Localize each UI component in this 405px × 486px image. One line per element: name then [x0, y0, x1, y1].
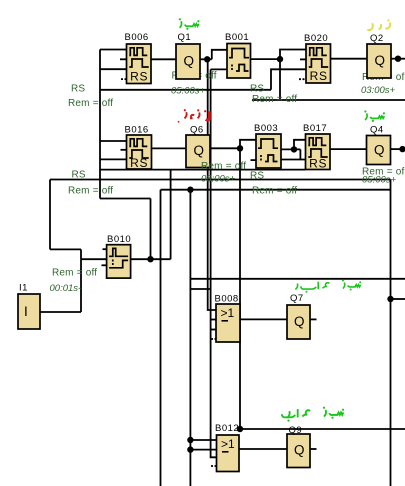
output Q9	[287, 434, 310, 468]
wire bus to B016 Trg	[100, 140, 127, 142]
wiping relay B001	[227, 44, 251, 79]
label Arabic green sabz aber above Q7	[295, 282, 360, 290]
wire bus to B016 R	[100, 158, 127, 160]
wire vertical x=50	[49, 180, 51, 250]
svg-text:Q: Q	[294, 443, 305, 458]
wire B012 out to Q9	[239, 448, 287, 450]
output Q1	[176, 44, 200, 79]
svg-text:>1: >1	[221, 306, 235, 320]
off-delay B010	[107, 245, 131, 278]
pulse relay B006	[127, 44, 152, 84]
wiping relay B003	[256, 134, 281, 168]
svg-text:Rem = off: Rem = off	[252, 94, 297, 105]
svg-text:Q: Q	[374, 143, 385, 158]
svg-text:B012: B012	[215, 423, 239, 434]
wire Q9 out stub	[310, 448, 317, 450]
wire junction 240 up to B003 Trg	[240, 140, 256, 149]
svg-text:Q6: Q6	[190, 125, 204, 136]
wire junction 280 down to line y100	[279, 59, 281, 100]
svg-text:B016: B016	[125, 125, 149, 136]
node junction B001 out	[277, 56, 283, 62]
wire B017 out to Q4	[330, 148, 367, 150]
svg-text:Rem = off: Rem = off	[68, 186, 113, 197]
svg-text:RS: RS	[250, 84, 264, 95]
svg-text:Q: Q	[294, 314, 305, 329]
svg-text:B003: B003	[254, 123, 278, 134]
wire B001 out to junction 280	[251, 58, 281, 60]
or gate B008	[216, 304, 240, 342]
wire B008 out to Q7	[240, 318, 287, 320]
node junction B010 out	[147, 256, 153, 262]
svg-text:>1: >1	[221, 437, 235, 451]
node junction right y299	[387, 296, 393, 302]
svg-text:Rem = off: Rem = off	[201, 161, 246, 172]
svg-text:Q1: Q1	[178, 32, 192, 43]
svg-text:RS: RS	[309, 157, 327, 171]
wire B010 pin1 stub	[103, 248, 107, 250]
pulse relay B017	[306, 134, 331, 171]
svg-text:Q2: Q2	[370, 33, 384, 44]
wire B020 Par green stub	[299, 78, 306, 80]
wire long line y=100 to right edge	[252, 99, 405, 101]
pulse relay B020	[306, 44, 331, 83]
svg-text:RS: RS	[130, 70, 148, 84]
pulse relay B016	[127, 135, 152, 170]
wire jog x81 down	[80, 249, 82, 259]
wire tap y=289	[190, 288, 210, 290]
wire B012 par green stub	[211, 465, 217, 467]
wire Q1 out to junction	[200, 58, 212, 60]
svg-text:Rem = off: Rem = off	[68, 98, 113, 109]
wire tap y=278.8 to right edge	[190, 278, 405, 280]
wire long line y=189.7	[161, 189, 391, 191]
wire Q4 out to right edge	[391, 148, 405, 150]
wire junction up to B001 Trg	[212, 50, 227, 60]
svg-text:B020: B020	[304, 33, 328, 44]
wire Q7 out stub	[310, 318, 317, 320]
svg-text:RS: RS	[310, 69, 328, 83]
svg-text:Q: Q	[194, 143, 205, 158]
wire bus to B006 Trg	[100, 49, 127, 51]
svg-text:B001: B001	[225, 32, 249, 43]
svg-text:Rem = off: Rem = off	[52, 268, 97, 279]
wire vertical x=190.4 down to bottom	[189, 190, 191, 486]
input I1	[18, 294, 40, 329]
wire B006 Par green stub	[121, 78, 127, 80]
node junction Q6 out	[237, 145, 243, 151]
wire vertical x=170.6 up to y173	[170, 170, 172, 260]
node junction B012 pin2	[187, 446, 193, 452]
label Arabic red ghermez above Q6	[185, 111, 210, 120]
output Q4	[367, 136, 391, 165]
svg-text:RS: RS	[71, 84, 85, 95]
wire long line y=179.5	[50, 179, 391, 181]
node junction Q4 out	[399, 146, 405, 152]
node junction B003 out	[291, 146, 297, 152]
wire B010 par stub	[102, 264, 107, 266]
node junction Q1 out	[204, 56, 210, 62]
label Arabic green sabz above Q1	[180, 21, 199, 28]
svg-text:00:01s-: 00:01s-	[50, 283, 82, 294]
wire B020 S stub	[300, 58, 306, 60]
svg-text:I1: I1	[19, 283, 28, 294]
wire vertical x=150.5 bus to B010 out	[150, 199, 152, 260]
wire riser x=271 to B020 R	[271, 69, 306, 90]
svg-text:Q: Q	[375, 53, 386, 68]
output Q6	[186, 135, 210, 168]
wire junction 280 up to B020 Trg	[280, 50, 306, 60]
wire B003 out to junction 294	[281, 148, 300, 150]
wire I1 vertical x=81	[80, 259, 82, 312]
wire B010 out to corner x170.6	[131, 258, 171, 260]
label Arabic green sabz above Q4	[365, 113, 384, 120]
wire B008 par green stub	[211, 338, 216, 340]
wire I1 out horizontal	[40, 311, 81, 313]
node junction B012 pin1	[187, 437, 193, 443]
svg-text:B008: B008	[215, 294, 239, 305]
node junction y190	[187, 187, 193, 193]
wire vertical x=210.6 long	[211, 69, 217, 457]
wire bus left vertical x=100	[99, 50, 101, 199]
node junction Q2 out	[395, 56, 401, 62]
wire B016 S stub	[121, 149, 128, 151]
svg-text:Q4: Q4	[370, 125, 384, 136]
wire B006 S stub	[120, 58, 127, 60]
wire into B017 R	[281, 159, 307, 161]
svg-text:B017: B017	[303, 123, 327, 134]
svg-text:Rem = off: Rem = off	[252, 186, 297, 197]
svg-text:05:00s+: 05:00s+	[171, 86, 206, 97]
wire vertical x=240 down to y429	[239, 148, 241, 429]
wire bus jog y=198.5	[100, 198, 151, 200]
or gate B012	[217, 435, 240, 472]
wire B006 out to Q1	[151, 58, 176, 60]
wire into B010 pin2	[81, 258, 107, 260]
svg-text:I: I	[24, 304, 28, 319]
output Q2	[367, 44, 391, 78]
svg-text:RS: RS	[130, 156, 148, 170]
svg-text:03:00s+: 03:00s+	[361, 85, 396, 96]
wire B020 out to Q2	[330, 58, 367, 60]
wire dot390 stub right y=299	[391, 298, 405, 300]
wire vertical x=207.7 Q1 to B008	[208, 59, 216, 310]
wire B001 pin2 horizontal	[211, 68, 227, 70]
wire x50 corner to x81	[50, 248, 81, 250]
wire junction 294 up to B017 Trg	[294, 140, 306, 150]
output Q7	[287, 305, 310, 339]
wire vertical x=390.5	[390, 180, 392, 486]
wire B003 par stub	[251, 159, 257, 161]
svg-text:08:00s+: 08:00s+	[201, 174, 236, 185]
wire B012 pin2	[190, 449, 216, 451]
svg-text:RS: RS	[250, 171, 264, 182]
wire B016 out to Q6	[151, 147, 187, 149]
wire B012 pin1	[190, 439, 216, 441]
svg-text:Q7: Q7	[290, 293, 304, 304]
wire long line y=429	[240, 428, 405, 430]
label Arabic yellow zard above Q2	[367, 23, 390, 31]
wire Q2 out to right edge	[391, 58, 405, 60]
wire vertical x=160.5 down to bottom	[160, 190, 162, 486]
wire bus to B006 R	[100, 68, 127, 70]
wire long 05:00s line y=89.8	[100, 89, 271, 91]
node junction y429	[237, 426, 243, 432]
label Arabic green sabz aber above Q9	[282, 409, 344, 418]
svg-text:05:00s+: 05:00s+	[362, 175, 397, 186]
svg-text:Q9: Q9	[289, 425, 303, 436]
svg-text:RS: RS	[72, 170, 86, 181]
svg-text:Q: Q	[184, 54, 195, 69]
svg-text:B010: B010	[107, 234, 131, 245]
wire B008 pin3 stub	[211, 329, 216, 331]
wire into B008 pin2	[211, 319, 216, 321]
wire long line y=173 under B016	[100, 169, 306, 171]
svg-text:B006: B006	[125, 32, 149, 43]
wire jog down to B017 R	[299, 149, 301, 159]
wire Q6 out to junction 240	[210, 147, 240, 149]
